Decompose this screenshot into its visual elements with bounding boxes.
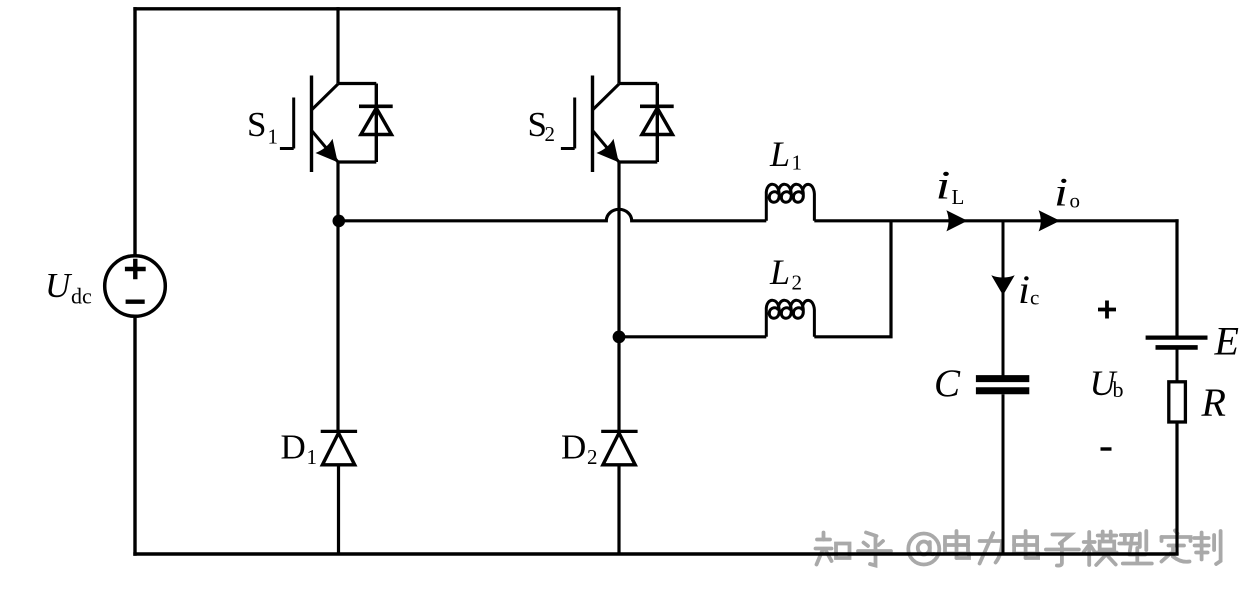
arrow io (1039, 210, 1060, 231)
svg-text:U: U (45, 266, 73, 305)
wire D1 anode to bottom bus (337, 465, 340, 555)
svg-text:L: L (769, 252, 790, 292)
S2 gate bar (573, 98, 576, 149)
S1 emitter arrowhead (316, 139, 338, 163)
svg-text:L: L (769, 134, 790, 174)
source Udc circle (105, 256, 166, 317)
svg-text:S: S (247, 105, 266, 144)
svg-text:1: 1 (792, 151, 803, 175)
source plus (125, 259, 146, 280)
battery E plates (1146, 336, 1208, 340)
S2 emitter arrowhead (597, 139, 619, 163)
svg-text:i: i (1018, 267, 1030, 312)
S2 gate lead (561, 147, 575, 150)
wire left vertical lower (133, 316, 136, 555)
wire top bus (133, 7, 620, 10)
D2 cathode bar (601, 430, 637, 433)
svg-text:D: D (561, 428, 586, 467)
svg-text:1: 1 (307, 445, 318, 469)
svg-text:1: 1 (268, 125, 279, 149)
svg-text:C: C (934, 362, 961, 405)
source minus (126, 300, 145, 304)
node S1-L1 junction dot (333, 215, 346, 228)
wire L2 input from S2 node (619, 335, 766, 338)
inductor L1 coil (766, 184, 814, 220)
inductor L2 coil (766, 300, 814, 336)
arrow iL (946, 210, 967, 231)
D1 triangle (322, 433, 354, 465)
wire mid horizontal with hop over S2 branch (339, 209, 766, 220)
D1 cathode bar (321, 430, 357, 433)
svg-text:2: 2 (545, 122, 556, 146)
S1 antiparallel diode cathode bar (359, 105, 393, 109)
wire L2 output and riser to mid bus (814, 221, 891, 337)
svg-text:2: 2 (792, 271, 803, 295)
capacitor C plates (976, 375, 1029, 382)
node S2-L2 junction dot (613, 331, 626, 344)
wire capacitor branch lower (1002, 394, 1005, 555)
svg-text:R: R (1201, 380, 1226, 425)
label battery plus (1098, 301, 1116, 319)
S2 body bar (591, 76, 594, 173)
arrow ic (991, 275, 1014, 295)
svg-text:b: b (1113, 377, 1124, 402)
resistor R (1169, 382, 1186, 422)
S2 antiparallel diode triangle and lead (642, 84, 673, 163)
svg-text:D: D (281, 428, 306, 467)
S2 antiparallel diode cathode bar (640, 105, 674, 109)
wire capacitor branch upper (1002, 221, 1005, 376)
wire S2 emitter to D2 (617, 162, 620, 431)
wire battery to resistor (1176, 349, 1179, 382)
svg-text:E: E (1214, 319, 1239, 364)
S1 emitter stroke (312, 131, 338, 162)
S2 emitter stroke (593, 131, 619, 162)
wire S2 branch collector (617, 7, 620, 83)
svg-text:i: i (936, 163, 951, 208)
S1 collector/emitter frame (338, 84, 376, 163)
svg-text:L: L (952, 185, 965, 209)
S1 antiparallel diode triangle and lead (361, 84, 392, 163)
svg-text:c: c (1030, 286, 1039, 310)
label battery minus (1101, 447, 1112, 450)
S2 collector/emitter frame (619, 84, 657, 163)
wire bottom bus (133, 552, 1178, 555)
S2 collector stroke (593, 84, 619, 110)
watermark 知乎 @电力电子模型定制 (816, 531, 1221, 566)
wire left vertical upper (133, 7, 136, 256)
S1 body bar (310, 76, 313, 173)
D2 triangle (603, 433, 635, 465)
S1 collector stroke (312, 84, 338, 110)
S1 gate lead (280, 147, 294, 150)
svg-text:2: 2 (587, 445, 598, 469)
wire L1 output to load corner (814, 219, 1178, 222)
svg-text:o: o (1070, 189, 1081, 213)
wire D2 anode to bottom bus (617, 465, 620, 555)
svg-text:i: i (1054, 170, 1068, 215)
wire S1 branch collector (336, 7, 339, 83)
wire battery branch upper (1175, 219, 1178, 337)
wire resistor to bottom bus (1175, 422, 1178, 555)
svg-text:dc: dc (71, 284, 92, 309)
wire S1 emitter to D1 (336, 162, 339, 431)
S1 gate bar (292, 98, 295, 149)
